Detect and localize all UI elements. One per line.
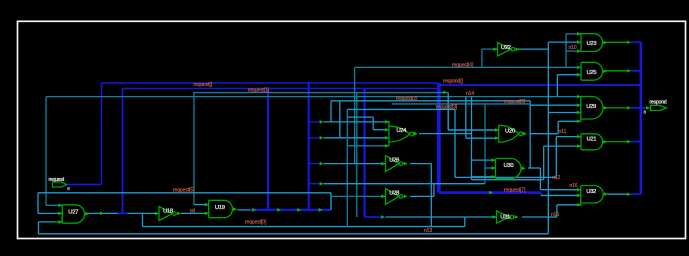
wire long vertical x357 [356, 93, 358, 217]
wire vertical x530 [529, 101, 531, 168]
wire request[1] horizontal [123, 88, 440, 90]
wire U19 output [238, 209, 251, 211]
wire U31 input horizontal [386, 216, 497, 218]
wire n14 long horizontal [46, 96, 581, 98]
wire vertical x122 [122, 89, 124, 214]
gate U23 [577, 32, 607, 53]
junction arrow [319, 208, 323, 212]
svg-text:n9: n9 [190, 209, 196, 215]
gate U24 [385, 120, 418, 148]
wire riser x540 [539, 168, 541, 190]
svg-text:U29: U29 [586, 104, 596, 110]
wire vertical x363 [363, 89, 365, 218]
gate U32 [577, 186, 608, 207]
svg-text:n10: n10 [569, 45, 577, 51]
gate U31 [492, 211, 518, 223]
wire U25 in2 stub [557, 74, 581, 76]
svg-text:respond: respond [650, 100, 667, 106]
wire U29 in4 stub [558, 120, 581, 122]
wire y117 horizontal [347, 116, 373, 118]
output port respond [651, 105, 667, 110]
wire n12 horizontal [455, 176, 556, 178]
wire riser x544 [543, 146, 545, 180]
junction arrow [627, 192, 631, 196]
wire riser x373 [372, 117, 374, 130]
wire bus vertical x439 [437, 83, 441, 193]
wire U25 in2 riser [556, 75, 558, 97]
wire stub x310 d [309, 183, 320, 185]
wire request port riser [101, 83, 103, 185]
gate U27 [58, 203, 89, 223]
wire line A left riser [142, 213, 144, 226]
wire riser to U22 [481, 49, 483, 67]
wire U23 output [604, 41, 627, 43]
wire request[4] riser x355 [354, 67, 356, 163]
junction arrow [627, 106, 631, 110]
wire U32 output [607, 193, 627, 195]
wire vertical x455 [454, 109, 456, 177]
input port request [53, 182, 67, 187]
svg-text:n16: n16 [569, 183, 577, 189]
wire U29 output [606, 107, 627, 109]
svg-text:request[3]: request[3] [436, 104, 458, 110]
wire riser x471 [471, 97, 473, 180]
wire riser x340 [339, 101, 341, 138]
wire vertical x194 to U19 [193, 93, 195, 205]
junction arrow [627, 40, 631, 44]
wire n10 from U22 [517, 48, 548, 50]
wire U32 in1 stub [540, 189, 580, 191]
wire U27 in2-in3 bridge [61, 213, 63, 222]
wire request[6] horizontal [392, 103, 530, 105]
wire U27 in2 riser [37, 193, 39, 214]
wire U29 out to bus / respond [631, 107, 647, 109]
wire U24 in1 horizontal [324, 121, 389, 123]
wire U23 in1 stub [566, 33, 581, 35]
svg-text:U31: U31 [500, 214, 510, 220]
junction arrow [320, 162, 324, 166]
svg-text:n13: n13 [424, 228, 432, 234]
wire to U18 input [128, 212, 160, 214]
wire U31 output [522, 216, 557, 218]
svg-text:U24: U24 [396, 128, 407, 134]
svg-text:U23: U23 [587, 41, 598, 47]
wire U18 out to U19 [181, 212, 209, 214]
wire U29 in3 stub [548, 112, 581, 114]
gate U19 [205, 200, 237, 217]
svg-text:8: 8 [644, 110, 647, 115]
junction arrow [320, 182, 324, 186]
wire request[7] horizontal [439, 191, 541, 194]
wire bottom line B [39, 233, 549, 235]
svg-text:request[4]: request[4] [452, 62, 474, 68]
wire U28 out riser [433, 184, 435, 197]
gate U21 [577, 134, 607, 150]
junction arrow request[7] [489, 191, 493, 195]
junction arrow [297, 208, 301, 212]
wire U30 in2 stub [485, 167, 496, 169]
gate U26 [381, 156, 407, 172]
gate U28 [381, 188, 407, 204]
wire request port stub [67, 184, 102, 186]
svg-text:n15: n15 [551, 212, 559, 218]
wire U28 in horizontal [331, 195, 386, 197]
junction arrow [443, 90, 447, 94]
wire U24 in2 stub [373, 129, 389, 131]
svg-text:n14: n14 [466, 91, 474, 97]
wire U30 in3 stub [472, 176, 496, 178]
junction arrow [320, 136, 324, 140]
svg-text:U19: U19 [215, 205, 225, 211]
gate U25 [577, 62, 607, 80]
wire U26 out riser x431 [430, 164, 432, 227]
gate U18 [155, 207, 181, 221]
junction arrow [320, 120, 324, 124]
wire U30 output [528, 167, 540, 169]
junction arrow [381, 215, 385, 219]
wire request[2] horizontal [331, 100, 530, 102]
svg-text:request[5]: request[5] [173, 188, 195, 194]
wire stub x310 b [309, 137, 320, 139]
wire request[] horizontal [102, 82, 439, 84]
wire U23 in2 stub [548, 41, 581, 43]
wire U23 in3 stub [566, 50, 581, 52]
wire U24 in4 horizontal [347, 145, 389, 147]
wire request[7] jog [540, 193, 542, 196]
wire U25 output [604, 70, 627, 72]
junction arrow [100, 212, 104, 216]
wire U32 in3 stub [557, 204, 581, 206]
wire U28 output [410, 195, 434, 197]
gate U22 [493, 43, 519, 57]
svg-text:U21: U21 [587, 137, 597, 143]
wire stub x310 a [309, 121, 320, 123]
wire U24 output [419, 133, 472, 135]
wire U27 in1 stub [46, 204, 62, 206]
wire U20 output [530, 133, 559, 135]
wire line A right riser [464, 217, 466, 227]
wire y180 horizontal [472, 179, 544, 181]
wire U27 output [87, 212, 119, 214]
wire U24 in3 horizontal [324, 137, 389, 139]
wire left riser x46 [45, 97, 47, 206]
wire request[1] cyan horizontal [194, 92, 449, 94]
wire bus vertical right x641 [640, 42, 643, 194]
wire U22 in stub [482, 48, 498, 50]
wire riser x331 upper [330, 101, 332, 122]
svg-text:U25: U25 [587, 70, 598, 76]
wire n15 riser x557 [556, 205, 558, 217]
wire y183 horizontal [324, 183, 486, 185]
wire U21 in1 stub [556, 136, 581, 138]
wire vertical x310 [308, 83, 310, 210]
svg-text:U26: U26 [389, 158, 400, 164]
gate U29 [577, 95, 608, 123]
wire request[4] horizontal [355, 66, 581, 68]
wire U32 in2 stub [541, 194, 581, 196]
wire U32 out to bus [631, 193, 641, 195]
wire U21 output [604, 141, 627, 143]
svg-text:request[0]: request[0] [245, 220, 267, 226]
wire U25 out to bus [631, 70, 641, 72]
wire stub at U27 output [118, 212, 128, 214]
junction arrow [277, 208, 281, 212]
wire to U20 in1 [448, 129, 499, 131]
wire vertical x448 [447, 93, 449, 130]
wire U26 in horizontal [324, 163, 386, 165]
svg-text:request[6]: request[6] [504, 99, 526, 105]
wire bus horizontal y210 [250, 209, 331, 211]
wire request[5] horizontal [38, 192, 331, 194]
svg-text:U22: U22 [501, 45, 511, 51]
svg-text:request[1]: request[1] [248, 88, 270, 94]
svg-text:n11: n11 [559, 129, 567, 135]
wire U23 out to bus [631, 41, 641, 43]
wire riser x466 [465, 97, 467, 139]
wire U20 in2 stub [466, 137, 499, 139]
gate U30 [492, 158, 526, 178]
svg-text:n12: n12 [552, 175, 560, 181]
wire riser x347 [346, 109, 348, 226]
junction arrow [627, 140, 631, 144]
wire U30 in1 stub [472, 159, 496, 161]
wire U21 out to bus [631, 141, 641, 143]
wire U27 in3 riser [38, 222, 40, 234]
junction arrow [252, 208, 256, 212]
wire vertical x267 [267, 89, 269, 210]
wire bottom line A [143, 226, 465, 228]
wire n10 vertical x548 [547, 42, 549, 234]
svg-text:U28: U28 [389, 191, 400, 197]
svg-text:request: request [49, 177, 65, 183]
wire riser x556 [555, 137, 557, 178]
wire riser x485 [484, 104, 486, 184]
pin arrow respond port [646, 106, 650, 110]
wire stub x310 c [309, 163, 320, 165]
wire U27 in3 green link [55, 221, 62, 223]
wire U27 in2 stub [38, 212, 62, 214]
wire U19 in1 stub [194, 204, 209, 206]
svg-text:request[]: request[] [193, 82, 212, 88]
svg-text:request[7]: request[7] [504, 187, 526, 193]
svg-text:U30: U30 [504, 163, 515, 169]
wire U29 in2 stub [530, 104, 581, 106]
svg-text:request[2]: request[2] [396, 96, 418, 102]
svg-text:U32: U32 [586, 189, 596, 195]
wire U26 output [410, 163, 431, 165]
gate U20 [495, 125, 527, 142]
wire request[3] horizontal [347, 108, 455, 110]
svg-text:8: 8 [67, 186, 70, 191]
wire U21 in2 stub [544, 145, 581, 147]
junction arrow [627, 69, 631, 73]
wire U27 in3 stub [39, 221, 56, 223]
wire riser x331 [330, 193, 332, 210]
wire vertical x566 [565, 34, 567, 68]
wire n11 riser x558 [557, 121, 559, 133]
svg-text:respond[]: respond[] [443, 78, 464, 84]
svg-text:U27: U27 [68, 210, 78, 216]
svg-text:U18: U18 [163, 209, 174, 215]
svg-text:U20: U20 [505, 128, 516, 134]
wire respond[] horizontal [439, 84, 641, 86]
wire stub x363 bottom [365, 216, 382, 218]
